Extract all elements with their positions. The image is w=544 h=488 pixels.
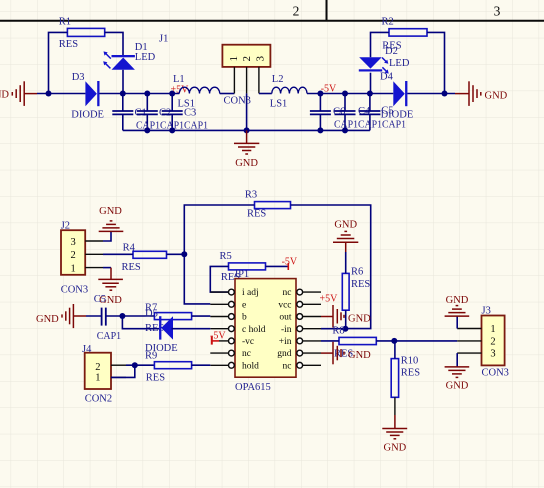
pin 1 J3	[457, 328, 481, 330]
wire node to R10	[394, 341, 396, 359]
svg-text:hold: hold	[242, 361, 259, 371]
LED D1	[103, 42, 155, 70]
wire R7 to pin b	[192, 315, 211, 317]
svg-text:+5V: +5V	[320, 294, 339, 305]
wire R9 to pin hold	[192, 364, 211, 366]
svg-text:2: 2	[70, 250, 75, 261]
wire main row left	[37, 93, 85, 95]
svg-text:GND: GND	[348, 350, 371, 361]
svg-text:J4: J4	[82, 344, 92, 355]
svg-text:GND: GND	[99, 206, 122, 217]
svg-text:R6: R6	[351, 267, 363, 278]
power ground above J3	[445, 306, 470, 317]
svg-text:LS1: LS1	[178, 99, 196, 110]
node R2 right	[442, 91, 448, 97]
pin 3 J3	[457, 352, 481, 354]
power ground below R10	[382, 415, 407, 439]
svg-text:GND: GND	[446, 380, 469, 391]
wire D1 to main row	[122, 70, 124, 94]
capacitor C5b	[359, 111, 380, 114]
resistor R9	[154, 362, 191, 369]
svg-text:CAP1: CAP1	[97, 331, 121, 342]
svg-text:R10: R10	[401, 355, 419, 366]
inductor L1	[179, 87, 219, 93]
node C4	[342, 91, 348, 97]
svg-text:-5V: -5V	[210, 330, 226, 341]
resistor R7	[154, 313, 191, 320]
wire R8 to J3 pin2	[376, 340, 457, 342]
wire J4 pin1 loop	[111, 365, 135, 377]
power port GND left edge	[12, 81, 37, 106]
svg-text:GND: GND	[446, 295, 469, 306]
node bottom C2	[144, 127, 150, 133]
node D2	[367, 91, 373, 97]
power port GND right	[455, 81, 481, 106]
svg-text:J1: J1	[159, 34, 168, 45]
node R8/R10	[391, 338, 397, 344]
pin 1 J4	[111, 376, 126, 378]
IC JP1 OPA615	[235, 279, 296, 378]
node C2	[144, 91, 150, 97]
resistor R3	[255, 202, 291, 209]
svg-text:RES: RES	[351, 279, 370, 290]
wire C4 node up D2 branch	[345, 93, 393, 95]
svg-text:i adj: i adj	[242, 288, 259, 298]
resistor R10	[391, 359, 398, 398]
svg-text:CON2: CON2	[85, 394, 112, 405]
wire L2 to -5V node	[307, 93, 345, 95]
wire J2 pin2 to R4	[103, 253, 133, 255]
svg-text:CON3: CON3	[61, 285, 88, 296]
wire D3 to node C1	[100, 93, 124, 95]
svg-text:J2: J2	[61, 220, 70, 231]
resistor R1	[67, 28, 104, 36]
diode D3	[71, 72, 104, 121]
svg-text:RES: RES	[146, 372, 165, 383]
wire R5 right to -5V	[266, 265, 288, 267]
svg-text:-in: -in	[281, 325, 292, 335]
svg-text:GND: GND	[36, 314, 59, 325]
svg-text:b: b	[242, 313, 247, 323]
node C3	[169, 91, 175, 97]
node J4	[132, 362, 138, 368]
power port -5V at R5	[287, 263, 289, 270]
wire D4 to GND right	[407, 93, 455, 95]
sheet border line	[0, 20, 544, 22]
svg-text:D5: D5	[145, 309, 158, 320]
wire J4 pin2 to R9	[126, 364, 154, 366]
node junction left	[46, 91, 52, 97]
connector J1	[222, 45, 270, 67]
pin 2 J4	[111, 364, 126, 366]
svg-text:R2: R2	[382, 17, 394, 28]
svg-text:R8: R8	[332, 325, 344, 336]
svg-text:RES: RES	[401, 367, 420, 378]
wire J2 pin1 to GND	[103, 267, 111, 269]
svg-text:GND: GND	[485, 90, 508, 101]
svg-text:RES: RES	[59, 39, 78, 50]
svg-text:GND: GND	[384, 442, 407, 453]
wire -in row	[321, 328, 345, 330]
svg-text:R9: R9	[145, 350, 157, 361]
pin 3 J2	[85, 240, 103, 242]
wire +in to R8	[321, 340, 339, 342]
pin 1 J2	[85, 267, 103, 269]
capacitor C2	[137, 111, 158, 114]
wire R1 left to node	[49, 32, 68, 93]
wire main row caps	[123, 93, 180, 95]
wire R4 to loop node	[167, 253, 185, 255]
svg-text:L2: L2	[272, 74, 284, 85]
power ground below J2	[98, 268, 123, 291]
svg-text:RES: RES	[247, 208, 266, 219]
inductor L2	[272, 87, 307, 93]
power port GND at gnd pin	[321, 342, 344, 365]
svg-text:DIODE: DIODE	[381, 110, 414, 121]
wire J3 pin3 down	[456, 353, 458, 367]
svg-text:2: 2	[95, 362, 100, 373]
wire GND to R6	[345, 252, 347, 273]
LED D2	[359, 46, 410, 73]
svg-text:D2: D2	[385, 46, 398, 57]
wire D2 to main row	[370, 73, 372, 94]
svg-text:nc: nc	[283, 288, 292, 298]
node R4/R3	[181, 251, 187, 257]
node C6	[317, 91, 323, 97]
wire D5 to pin c hold	[172, 328, 211, 330]
svg-text:R4: R4	[123, 243, 136, 254]
wire node to R7	[122, 315, 154, 317]
capacitor C6	[310, 111, 331, 114]
svg-text:L1: L1	[173, 74, 185, 85]
svg-text:CAP1CAP1CAP1: CAP1CAP1CAP1	[334, 120, 406, 131]
svg-text:LED: LED	[389, 58, 410, 69]
power port -5V at -vc	[211, 337, 213, 345]
left pins JP1	[210, 292, 228, 365]
wire R5 left to i adj	[210, 266, 228, 292]
wire J3 pin1 up	[456, 316, 458, 328]
svg-text:LS1: LS1	[270, 99, 288, 110]
svg-text:+in: +in	[279, 337, 292, 347]
node bottom J1 pin2	[244, 127, 250, 133]
diode D5	[145, 309, 178, 355]
node C5/R7	[119, 313, 125, 319]
svg-text:out: out	[279, 313, 292, 323]
svg-text:-vc: -vc	[242, 337, 254, 347]
pin 1 J1	[233, 67, 235, 94]
sheet zone divider	[326, 0, 328, 21]
svg-text:c hold: c hold	[242, 325, 266, 335]
svg-text:-5V: -5V	[282, 256, 298, 267]
svg-text:1: 1	[70, 263, 75, 274]
svg-text:GND: GND	[334, 220, 357, 231]
diode D4	[380, 72, 413, 121]
connector J3	[482, 316, 505, 366]
node D1/C1	[120, 91, 126, 97]
svg-text:D4: D4	[380, 72, 394, 83]
wire R2 right down	[427, 32, 445, 93]
node bottom C4	[342, 127, 348, 133]
capacitor C4	[335, 111, 356, 114]
svg-text:JP1: JP1	[234, 269, 249, 280]
pin 3 J1	[258, 67, 260, 94]
svg-text:3: 3	[494, 4, 501, 19]
resistor R6	[342, 273, 349, 310]
wire node to D5	[122, 316, 159, 329]
svg-text:GND: GND	[235, 158, 258, 169]
svg-text:3: 3	[254, 56, 266, 62]
svg-text:1: 1	[95, 373, 100, 384]
svg-text:3: 3	[70, 237, 75, 248]
power port GND left bottom	[62, 304, 86, 328]
svg-text:GND: GND	[348, 314, 371, 325]
wire R6 to -in row	[345, 310, 347, 328]
svg-text:R3: R3	[245, 190, 257, 201]
svg-text:CON3: CON3	[482, 368, 509, 379]
wire J1 pin2 down	[246, 93, 248, 130]
svg-text:R5: R5	[220, 251, 232, 262]
svg-text:DIODE: DIODE	[71, 109, 104, 120]
svg-text:RES: RES	[122, 262, 141, 273]
svg-text:gnd: gnd	[277, 349, 292, 359]
svg-text:D3: D3	[72, 72, 85, 83]
svg-text:C5: C5	[94, 294, 106, 305]
pin 2 J1	[246, 67, 248, 94]
node bottom C3	[169, 127, 175, 133]
svg-text:R1: R1	[59, 16, 71, 27]
wire J2 pin3 to GND	[103, 232, 111, 242]
svg-text:J3: J3	[482, 305, 491, 316]
wire R2 left to D2	[371, 32, 390, 57]
wire R3 loop left	[184, 205, 254, 304]
svg-text:OPA615: OPA615	[235, 382, 271, 393]
svg-text:2: 2	[293, 4, 300, 19]
capacitor C1	[112, 111, 133, 114]
wire R3 loop right	[291, 205, 371, 329]
power ground above J2	[99, 221, 124, 232]
svg-text:2: 2	[490, 336, 495, 347]
wire J1 pin3 to L2	[259, 93, 272, 95]
capacitor C3	[162, 111, 183, 114]
wire L1 to J1 pin1	[220, 93, 235, 95]
svg-text:2: 2	[241, 56, 253, 62]
resistor R2	[389, 29, 427, 36]
svg-text:e: e	[242, 300, 246, 310]
power ground above R6	[333, 231, 358, 252]
resistor R5	[229, 263, 266, 270]
bottom row wire of top circuit	[123, 129, 370, 131]
wire R1 right to D1	[105, 32, 123, 55]
svg-text:1: 1	[490, 324, 495, 335]
svg-text:3: 3	[490, 349, 495, 360]
svg-text:nc: nc	[242, 349, 251, 359]
svg-text:1: 1	[228, 56, 240, 62]
pin 2 J3	[457, 340, 481, 342]
resistor R4	[133, 251, 167, 258]
svg-text:nc: nc	[283, 361, 292, 371]
svg-text:C1: C1	[135, 107, 147, 118]
power ground below J3	[445, 367, 470, 378]
connector J2	[61, 230, 85, 275]
right pins JP1	[302, 292, 321, 365]
power port GND at out	[321, 305, 344, 328]
node R6/-in	[342, 326, 348, 332]
svg-text:GND: GND	[0, 89, 9, 100]
pin 2 J2	[85, 253, 103, 255]
svg-text:vcc: vcc	[278, 300, 291, 310]
node bottom C6	[317, 127, 323, 133]
resistor R8	[339, 337, 376, 344]
connector J4	[85, 353, 111, 389]
wire R10 down	[394, 397, 396, 415]
svg-text:LED: LED	[135, 52, 156, 63]
power ground below J1	[234, 130, 259, 154]
capacitor C5	[102, 308, 106, 326]
svg-text:C2: C2	[159, 107, 171, 118]
